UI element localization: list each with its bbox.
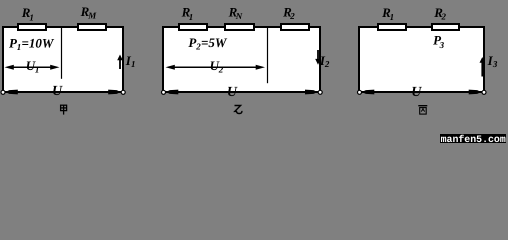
svg-text:manfen5.com: manfen5.com <box>441 134 506 143</box>
svg-text:U: U <box>411 85 422 100</box>
svg-text:N: N <box>235 11 243 21</box>
svg-text:U: U <box>227 85 238 100</box>
svg-text:2: 2 <box>218 64 224 74</box>
svg-text:1: 1 <box>35 64 40 74</box>
svg-text:3: 3 <box>439 40 445 50</box>
svg-text:2: 2 <box>324 59 330 69</box>
svg-text:1: 1 <box>131 59 136 69</box>
svg-text:=10W: =10W <box>22 35 55 50</box>
svg-text:3: 3 <box>492 59 498 69</box>
svg-text:M: M <box>87 10 97 20</box>
svg-text:2: 2 <box>441 11 447 21</box>
svg-text:1: 1 <box>189 12 194 22</box>
svg-text:2: 2 <box>289 11 295 21</box>
svg-text:=5W: =5W <box>201 35 228 50</box>
svg-text:1: 1 <box>29 12 34 22</box>
svg-text:1: 1 <box>390 12 395 22</box>
svg-text:U: U <box>52 84 63 99</box>
